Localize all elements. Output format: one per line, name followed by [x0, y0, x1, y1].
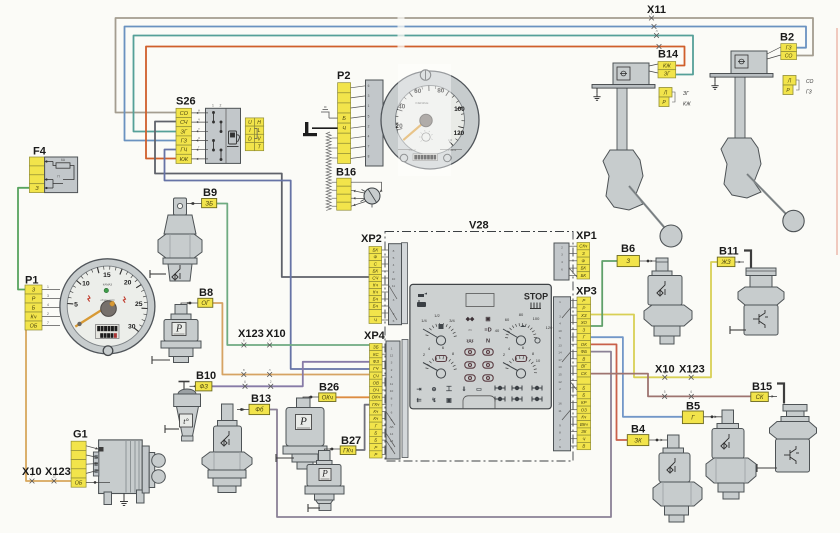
V28 odometer window [466, 294, 494, 307]
note table of S26 wire codes [245, 118, 263, 151]
svg-text:P: P [321, 469, 328, 479]
fuel level sender B14 [592, 63, 682, 247]
connector X123/X10 marks middle [242, 343, 247, 348]
svg-text:БК: БК [372, 269, 378, 274]
svg-text:З: З [582, 327, 585, 332]
tag of B9 [202, 199, 217, 208]
svg-text:1/4: 1/4 [421, 318, 427, 323]
alternator G1 [71, 440, 165, 506]
lower cells of P2 connector stubs to shield [332, 138, 338, 206]
svg-text:ВГ: ВГ [581, 364, 587, 369]
tag of B14 [658, 62, 676, 78]
wire ФЗ : sensor B10 to X123/X10 to XP4 (violet) [212, 362, 370, 387]
svg-text:6: 6 [559, 445, 561, 449]
svg-text:X123: X123 [45, 466, 71, 478]
svg-text:8: 8 [391, 396, 393, 400]
scan gap artifact [398, 12, 405, 52]
svg-text:⇇: ⇇ [416, 397, 421, 404]
svg-text:B16: B16 [336, 167, 356, 179]
svg-text:2: 2 [368, 124, 370, 128]
svg-text:В: В [582, 444, 585, 449]
svg-text:Б: Б [342, 116, 346, 122]
tag of B15 [751, 392, 769, 401]
svg-text:ОВ: ОВ [373, 380, 379, 385]
svg-text:СО: СО [785, 54, 793, 60]
wire БК : XP3 pin ОК to sensor B4 (red) [591, 344, 628, 440]
svg-text:4: 4 [393, 263, 395, 267]
svg-text:ОГ: ОГ [201, 301, 210, 307]
svg-text:▣: ▣ [485, 317, 491, 323]
wire ГКч : sensor B27 to XP4 (dark grey) [356, 405, 370, 450]
tag of B6 [617, 256, 639, 267]
speedometer P2 hub [420, 114, 432, 126]
svg-text:КЖ: КЖ [683, 102, 691, 108]
svg-text:X123: X123 [679, 364, 705, 376]
svg-text:D: D [248, 136, 252, 142]
wire ГЗ : S26 pin ГЗ to X11 to B2 (blue) [125, 27, 807, 141]
wire КЖ : S26 pin КЖ to X11 to B14 (orange) [146, 47, 685, 159]
svg-text:КАМАЗ: КАМАЗ [103, 282, 113, 286]
svg-text:Ч: Ч [582, 436, 585, 441]
connector XP2 housing [402, 243, 408, 324]
svg-text:Р: Р [374, 452, 377, 457]
ground of P2 pin Б [329, 117, 338, 119]
svg-text:ГЧ: ГЧ [180, 148, 187, 154]
svg-text:3: 3 [393, 298, 395, 302]
svg-text:ЗК: ЗК [634, 438, 642, 444]
svg-text:1: 1 [368, 104, 370, 108]
svg-text:8: 8 [368, 155, 370, 159]
svg-text:Р: Р [582, 306, 585, 311]
connector XP3 housing [554, 297, 571, 451]
svg-text:P: P [175, 323, 182, 334]
connector strip XP3 [577, 297, 591, 450]
svg-text:8: 8 [559, 431, 561, 435]
svg-text:6: 6 [561, 267, 563, 271]
oil pressure gauge sensor B8 [152, 302, 201, 364]
svg-text:9: 9 [559, 423, 561, 427]
svg-text:B2: B2 [780, 32, 794, 44]
shield hatching along P2/B16 connectors [326, 132, 331, 210]
svg-text:B9: B9 [203, 187, 217, 199]
svg-text:11: 11 [392, 284, 395, 288]
svg-text:о: о [198, 136, 200, 140]
svg-text:14: 14 [390, 432, 394, 436]
svg-text:X10: X10 [22, 466, 42, 478]
svg-text:6: 6 [244, 380, 246, 384]
ground of P2 pin Ч (main ground) [312, 127, 338, 129]
coolant overheat sensor B11 [730, 251, 784, 336]
svg-text:ХО: ХО [580, 320, 588, 325]
svg-text:15: 15 [558, 373, 562, 377]
wire Г : XP3 pin Г to sensor B5 (blue) [591, 337, 683, 417]
svg-text:B5: B5 [686, 401, 700, 413]
svg-text:СЧ: СЧ [373, 373, 379, 378]
connector XP1 housing [554, 243, 569, 280]
ground of B2 [714, 77, 716, 82]
tag of B8 [198, 298, 213, 307]
svg-text:БК: БК [581, 266, 587, 271]
wire СК : XP3 pin СК to X10/X123 to sensor B15 (grey brown) [591, 374, 751, 397]
speed sensor B16 symbol [351, 182, 383, 207]
svg-text:ОБ: ОБ [75, 481, 83, 487]
svg-text:н: н [198, 108, 200, 112]
svg-text:120: 120 [546, 325, 553, 330]
svg-text:СКч: СКч [579, 244, 588, 249]
svg-text:B13: B13 [251, 393, 271, 405]
svg-text:4: 4 [561, 260, 563, 264]
svg-text:3: 3 [391, 361, 393, 365]
svg-text:4: 4 [47, 303, 49, 307]
svg-text:X10: X10 [266, 328, 286, 340]
svg-text:Бч: Бч [373, 304, 379, 309]
svg-text:ГЧ: ГЧ [373, 366, 378, 371]
svg-text:XP2: XP2 [361, 233, 382, 245]
fuse block F4 [29, 157, 77, 193]
svg-text:10: 10 [82, 281, 90, 288]
svg-text:12: 12 [558, 380, 562, 384]
svg-text:STOP: STOP [524, 292, 548, 302]
svg-text:15: 15 [103, 272, 111, 279]
V28 fuel gauge [421, 313, 455, 323]
wire ЗБ : sensor B9 to X123/X10 to XP4 (green) [217, 204, 370, 346]
svg-text:КЖ: КЖ [663, 64, 672, 70]
svg-text:л: л [269, 368, 271, 372]
svg-text:5: 5 [664, 390, 666, 394]
svg-text:L: L [258, 128, 261, 134]
svg-text:1/2: 1/2 [434, 313, 440, 318]
wire ОБ : tachometer P1 to X10/X123 to alternator G1 (tan) [26, 330, 71, 481]
svg-text:X11: X11 [647, 4, 666, 16]
svg-text:в: в [243, 368, 245, 372]
svg-text:3: 3 [559, 314, 561, 318]
svg-text:ЖЗ: ЖЗ [721, 260, 731, 266]
speedometer P2 small dial [422, 133, 430, 141]
tag of B5 [682, 411, 703, 424]
svg-text:16: 16 [558, 402, 562, 406]
connector XP4 housing [402, 340, 408, 458]
svg-text:ОБ: ОБ [30, 323, 38, 329]
svg-text:100: 100 [533, 316, 540, 321]
svg-text:Кч: Кч [373, 409, 379, 414]
connector strip of G1 [71, 441, 86, 487]
svg-text:80: 80 [519, 312, 524, 317]
svg-text:30: 30 [128, 324, 136, 331]
svg-text:XP1: XP1 [576, 230, 597, 242]
svg-text:Б: Б [374, 431, 377, 436]
tachometer P1 needle [75, 302, 114, 327]
svg-text:2: 2 [561, 245, 563, 249]
svg-text:ХЗ: ХЗ [580, 313, 587, 318]
svg-text:11: 11 [390, 382, 393, 386]
svg-text:Р: Р [374, 445, 377, 450]
svg-text:ЗГ: ЗГ [181, 129, 188, 135]
svg-text:КЖ: КЖ [180, 157, 189, 163]
svg-text:4: 4 [559, 322, 561, 326]
svg-text:2: 2 [270, 380, 272, 384]
tag of B10 [195, 382, 212, 391]
svg-text:V28: V28 [469, 220, 489, 232]
svg-text:U: U [248, 120, 252, 126]
connector X10/X123 marks bottom left [30, 479, 35, 484]
svg-text:ФЗ: ФЗ [373, 359, 379, 364]
svg-text:5: 5 [559, 336, 561, 340]
white highlight band over P2 [398, 64, 451, 176]
wire З : fuse F4 to tachometer P1 (green) [18, 188, 29, 290]
svg-text:ГКч: ГКч [343, 448, 353, 454]
svg-text:Ф: Ф [582, 258, 586, 263]
svg-text:7: 7 [391, 404, 393, 408]
svg-text:B8: B8 [199, 287, 213, 299]
connector strip of P2 [338, 83, 351, 164]
svg-text:B14: B14 [658, 49, 679, 61]
svg-text:10: 10 [392, 277, 396, 281]
svg-text:З: З [626, 259, 630, 265]
svg-text:ОЧ: ОЧ [373, 388, 379, 393]
svg-text:5: 5 [74, 301, 78, 308]
switch S26 [176, 104, 241, 164]
svg-text:Р: Р [582, 298, 585, 303]
svg-text:9: 9 [393, 312, 395, 316]
coolant temperature indicator sensor B10 [165, 382, 201, 442]
svg-text:11: 11 [558, 409, 561, 413]
wire СЧ : S26 pin СЧ to connector XP2 (dark grey) [155, 122, 369, 278]
svg-text:ОКч: ОКч [372, 395, 381, 400]
ground of G1 [123, 494, 125, 498]
wire СО : S26 pin СО to connector X11 to fuel sender B2 (grey) [116, 18, 814, 113]
svg-text:6: 6 [690, 390, 692, 394]
svg-text:7: 7 [368, 145, 370, 149]
svg-text:ГЗ: ГЗ [181, 139, 188, 145]
svg-text:1: 1 [391, 346, 393, 350]
instrument cluster V28 boundary [385, 232, 573, 462]
svg-text:7: 7 [47, 321, 49, 325]
coolant overheat sensor B6 [639, 258, 692, 344]
svg-text:ʊʊ: ʊʊ [467, 339, 474, 345]
svg-text:ВКч: ВКч [580, 422, 589, 427]
svg-text:40: 40 [495, 328, 500, 333]
svg-text:▣: ▣ [446, 398, 452, 404]
V28 centre tell-tale icons [465, 316, 492, 345]
svg-text:B6: B6 [621, 243, 635, 255]
wire ФБ : XP3 pin ФБ to sensor B13 via bottom run (grey violet) [270, 352, 611, 517]
svg-text:X123: X123 [238, 328, 264, 340]
svg-text:Кч: Кч [373, 290, 379, 295]
svg-text:Кч: Кч [373, 416, 379, 421]
svg-text:ЗБ: ЗБ [373, 345, 379, 350]
svg-text:10: 10 [390, 389, 394, 393]
speedometer P2 screws [420, 70, 430, 80]
svg-text:N: N [486, 339, 490, 345]
svg-text:Б: Б [374, 438, 377, 443]
speedometer P2 rear connector box [366, 80, 384, 166]
svg-text:XP4: XP4 [364, 330, 386, 342]
V28 axle lock icons [495, 386, 542, 402]
parking brake sensor B4 [649, 435, 703, 522]
connector strip of P1 [25, 285, 60, 330]
svg-text:ЗБ: ЗБ [205, 201, 213, 207]
svg-text:◆◆: ◆◆ [465, 316, 475, 323]
svg-text:14: 14 [558, 351, 562, 355]
svg-text:3: 3 [47, 294, 49, 298]
fuel pump pictogram in S26 [227, 131, 239, 147]
V28 speedometer repeat [495, 312, 553, 333]
svg-text:⊕: ⊕ [431, 387, 436, 393]
speedometer P2 odometer [413, 154, 438, 161]
svg-text:6: 6 [368, 84, 370, 88]
tag of B11 [717, 257, 735, 267]
svg-text:СЧ: СЧ [372, 276, 379, 281]
svg-text:Б: Б [582, 393, 585, 398]
svg-text:B26: B26 [319, 382, 339, 394]
svg-text:3: 3 [368, 94, 370, 98]
tag of B2 [781, 44, 797, 60]
svg-text:3: 3 [561, 253, 563, 257]
svg-text:X10: X10 [655, 364, 675, 376]
svg-text:2: 2 [220, 104, 222, 108]
svg-text:B15: B15 [752, 381, 772, 393]
svg-text:F4: F4 [33, 146, 47, 158]
svg-text:Ф: Ф [373, 255, 377, 260]
svg-text:≡D: ≡D [484, 328, 491, 334]
svg-text:B27: B27 [341, 435, 361, 447]
svg-text:ГЗ: ГЗ [786, 46, 793, 52]
svg-text:л: л [656, 29, 658, 33]
svg-text:СК: СК [756, 395, 764, 401]
svg-text:Л: Л [663, 91, 668, 97]
svg-text:1: 1 [212, 104, 214, 108]
tag of B13 [249, 404, 270, 414]
fuel level sender B2 [710, 51, 804, 232]
svg-text:Б: Б [32, 305, 36, 311]
svg-text:20: 20 [124, 280, 132, 287]
svg-text:1: 1 [47, 285, 49, 289]
tachometer P1 red zone marks [88, 295, 126, 302]
svg-text:В: В [582, 356, 585, 361]
svg-text:4: 4 [368, 135, 370, 139]
wire З : XP3 pin З to sensor B6 (green) [591, 261, 618, 326]
svg-text:4: 4 [391, 375, 393, 379]
wire ГЧ : S26 pin ГЧ to connector XP4 (slate blue) [165, 150, 370, 370]
svg-text:t°: t° [183, 417, 189, 426]
svg-text:⇓: ⇓ [461, 386, 466, 393]
svg-text:8: 8 [393, 249, 395, 253]
svg-text:ГЗ: ГЗ [806, 90, 812, 96]
svg-text:6: 6 [393, 319, 395, 323]
svg-text:2: 2 [47, 312, 49, 316]
svg-text:2: 2 [393, 270, 395, 274]
svg-text:Кч: Кч [373, 283, 379, 288]
svg-text:ОЗ: ОЗ [581, 407, 587, 412]
tachometer P1 hub [101, 301, 117, 317]
svg-text:БК: БК [372, 248, 378, 253]
svg-text:КР: КР [581, 400, 587, 405]
svg-text:P: P [299, 416, 307, 428]
wire code note of B2 [783, 76, 796, 86]
connector strip of B16 [337, 178, 351, 210]
svg-text:10: 10 [536, 358, 541, 363]
tag of B27 [340, 446, 356, 455]
svg-text:7: 7 [559, 438, 561, 442]
svg-text:120: 120 [454, 130, 465, 137]
tachometer P1 odometer [96, 325, 120, 339]
svg-text:工: 工 [446, 386, 452, 393]
svg-text:5: 5 [393, 256, 395, 260]
svg-text:ФЗ: ФЗ [199, 385, 208, 391]
oil pressure warning sensor B27 [305, 448, 344, 512]
wire ЗГ : S26 pin ЗГ to X11 to fuel sender B14 (teal) [134, 36, 694, 132]
svg-text:↯: ↯ [431, 397, 436, 404]
speedometer P2 needle [403, 117, 430, 140]
svg-text:Кч: Кч [581, 415, 587, 420]
svg-text:P1: P1 [25, 275, 38, 287]
svg-text:КС: КС [373, 352, 380, 357]
svg-text:S26: S26 [176, 96, 196, 108]
tag of B4 [627, 435, 649, 446]
svg-text:B11: B11 [719, 246, 739, 258]
connector strip XP4 [370, 344, 383, 459]
svg-text:ОК: ОК [581, 342, 587, 347]
tag of B26 [319, 393, 336, 402]
speedometer P2 dial [381, 64, 479, 176]
svg-text:Фб: Фб [255, 408, 264, 414]
wire ХЗ : XP3 pin ХЗ to X10/X123 to sensor B11 (yellow) [591, 262, 718, 377]
svg-text:⇥: ⇥ [416, 387, 421, 393]
connector X10/X123 marks right [662, 375, 667, 380]
svg-text:17: 17 [558, 358, 562, 362]
svg-text:13: 13 [558, 343, 562, 347]
svg-text:Кч: Кч [31, 314, 37, 320]
tachometer P1 indicator led [104, 288, 108, 292]
instrument cluster V28 panel face [410, 284, 553, 408]
svg-text:3/4: 3/4 [449, 318, 455, 323]
connector strip XP1 [577, 243, 590, 280]
svg-text:Л: Л [787, 79, 792, 85]
svg-text:10: 10 [558, 329, 562, 333]
connector strip XP2 [369, 247, 382, 324]
svg-text:⇔: ⇔ [467, 328, 473, 334]
svg-text:2: 2 [391, 368, 393, 372]
oil pressure warning sensor B13 [202, 404, 252, 493]
ground of B14 [596, 88, 598, 93]
svg-text:XP3: XP3 [576, 286, 597, 298]
V28 bottom tab outline [463, 396, 495, 409]
svg-text:Ч: Ч [342, 126, 346, 132]
svg-text:2: 2 [559, 387, 561, 391]
svg-text:СО: СО [806, 79, 814, 85]
svg-text:1: 1 [559, 300, 561, 304]
svg-text:5: 5 [368, 114, 370, 118]
svg-text:СО: СО [180, 111, 189, 117]
svg-text:P2: P2 [337, 70, 350, 82]
svg-text:▭: ▭ [476, 387, 482, 393]
svg-text:АБ: АБ [389, 425, 393, 429]
svg-text:Бч: Бч [373, 297, 379, 302]
connector X11 marks [649, 16, 654, 21]
svg-text:B4: B4 [631, 424, 646, 436]
svg-text:СЧ: СЧ [180, 120, 188, 126]
svg-text:Р: Р [32, 296, 36, 302]
svg-text:6: 6 [391, 411, 393, 415]
wire ОГ : sensor B8 to X123/X10 to XP4 (tan) [213, 303, 370, 375]
tachometer P1 [60, 259, 155, 356]
svg-text:13: 13 [390, 439, 394, 443]
V28 bottom icon rows [416, 386, 482, 404]
oil pressure warning sensor B5 [703, 410, 756, 499]
coolant temperature sensor B9 [150, 198, 202, 281]
svg-text:G1: G1 [73, 429, 88, 441]
wire ОКч : sensor B26 to XP4 (orange) [336, 396, 370, 398]
